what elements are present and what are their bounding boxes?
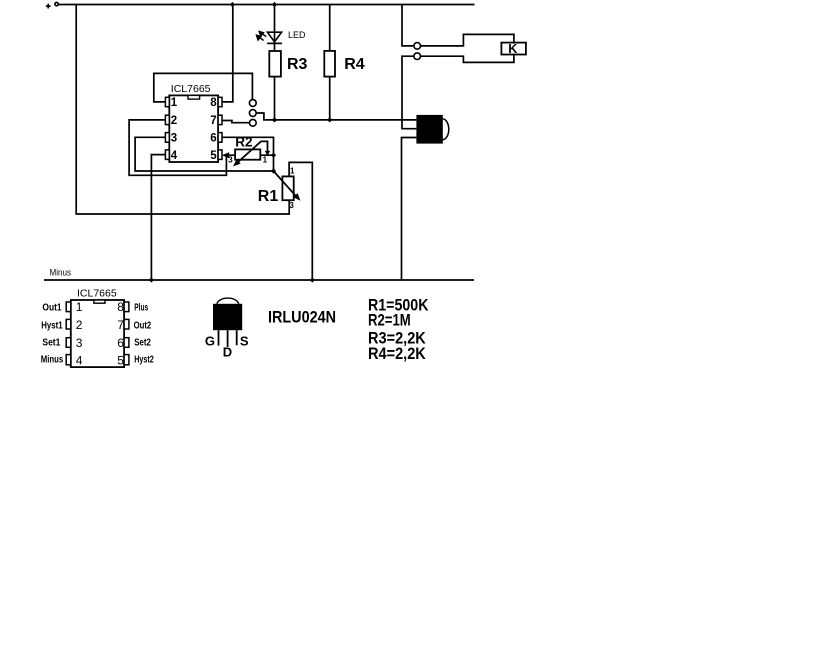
- svg-text:Hyst1: Hyst1: [41, 320, 63, 332]
- svg-text:Minus: Minus: [50, 267, 72, 277]
- svg-text:6: 6: [210, 133, 216, 145]
- svg-text:8: 8: [117, 300, 124, 314]
- svg-text:Set1: Set1: [42, 337, 60, 349]
- svg-text:R2=1M: R2=1M: [368, 311, 411, 330]
- svg-text:3: 3: [228, 155, 233, 164]
- svg-text:1: 1: [171, 97, 178, 109]
- svg-text:Minus: Minus: [41, 354, 64, 366]
- svg-text:8: 8: [210, 97, 217, 109]
- svg-text:5: 5: [117, 354, 124, 368]
- svg-text:6: 6: [117, 336, 124, 350]
- svg-text:Out2: Out2: [134, 320, 152, 332]
- svg-text:K: K: [508, 42, 517, 56]
- svg-text:R2: R2: [235, 135, 252, 150]
- svg-text:D: D: [223, 344, 232, 359]
- svg-text:Out1: Out1: [42, 302, 61, 314]
- svg-text:3: 3: [289, 201, 294, 210]
- svg-text:G: G: [205, 334, 215, 349]
- svg-text:R4=2,2K: R4=2,2K: [368, 344, 426, 363]
- svg-text:3: 3: [171, 133, 177, 145]
- svg-text:4: 4: [76, 354, 83, 368]
- svg-text:Set2: Set2: [134, 337, 151, 349]
- svg-text:2: 2: [171, 115, 177, 127]
- svg-text:ICL7665: ICL7665: [171, 83, 211, 95]
- svg-text:3: 3: [76, 336, 83, 350]
- svg-text:R1: R1: [258, 188, 279, 205]
- svg-text:S: S: [240, 334, 249, 349]
- svg-text:1: 1: [76, 300, 83, 314]
- svg-text:7: 7: [117, 318, 124, 332]
- svg-text:1: 1: [290, 167, 295, 176]
- svg-text:7: 7: [210, 115, 216, 127]
- svg-text:Hyst2: Hyst2: [134, 354, 154, 366]
- svg-text:2: 2: [76, 318, 83, 332]
- svg-text:4: 4: [171, 150, 178, 162]
- svg-text:Plus: Plus: [134, 302, 148, 314]
- svg-text:IRLU024N: IRLU024N: [268, 308, 336, 327]
- svg-text:R3: R3: [287, 56, 308, 73]
- svg-text:LED: LED: [288, 30, 306, 40]
- svg-text:5: 5: [210, 150, 217, 162]
- svg-text:R4: R4: [344, 56, 365, 73]
- svg-text:1: 1: [263, 155, 268, 164]
- svg-text:ICL7665: ICL7665: [77, 288, 117, 300]
